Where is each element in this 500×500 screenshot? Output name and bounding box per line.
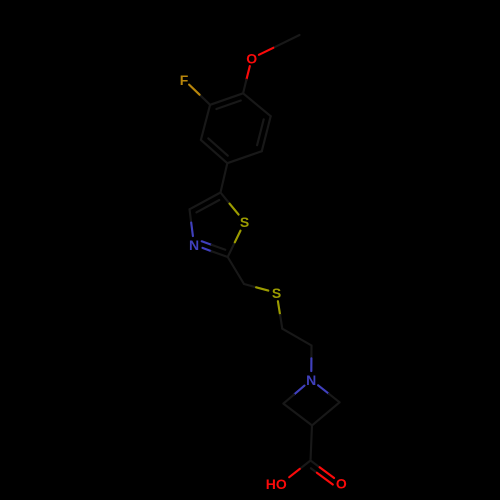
bond phenyl C1 - thiazole C5 bbox=[221, 163, 228, 192]
svg-text:S: S bbox=[240, 214, 249, 230]
thiazole bond C5-S1 bbox=[221, 193, 239, 215]
bond CH2-N (azetidine) bbox=[310, 346, 312, 372]
azetidine bond C2-C3 bbox=[283, 404, 312, 426]
bond S-CH2 bbox=[278, 301, 282, 329]
bond CH2-CH2 bbox=[282, 329, 311, 346]
benzene bond C4=C3 (double) bbox=[210, 93, 243, 109]
thiazole bond C4-N3 bbox=[190, 209, 193, 236]
bond C3-COOH carbon bbox=[311, 425, 313, 460]
benzene bond C2=C1 (double) bbox=[201, 138, 228, 163]
svg-text:N: N bbox=[189, 237, 199, 253]
svg-text:N: N bbox=[306, 372, 316, 388]
thiazole bond C5=C4 (double) bbox=[190, 193, 221, 213]
bond O-C4 (ring) bbox=[243, 66, 250, 93]
benzene bond C3-C2 bbox=[201, 105, 210, 140]
azetidine bond N1-C2 bbox=[283, 386, 304, 404]
benzene bond C6=C5 (double) bbox=[257, 116, 271, 151]
azetidine bond N1-C4 bbox=[318, 385, 340, 402]
benzene bond C5-C4 bbox=[243, 93, 271, 116]
svg-text:O: O bbox=[336, 475, 347, 491]
bond CH3-O (methoxy) bbox=[259, 35, 300, 55]
benzene bond C1-C6 bbox=[227, 151, 261, 163]
bond thiazole C2 - CH2 bbox=[228, 257, 244, 284]
svg-text:S: S bbox=[272, 285, 281, 301]
bond CH2-S (thioether) bbox=[244, 284, 268, 291]
svg-text:O: O bbox=[246, 50, 257, 66]
bond C3-F bbox=[189, 85, 210, 105]
bond C-OH (carboxyl) bbox=[289, 461, 310, 478]
bond C=O (carboxyl, double) bbox=[311, 461, 335, 485]
svg-text:F: F bbox=[180, 72, 189, 88]
svg-text:HO: HO bbox=[266, 476, 287, 492]
thiazole bond N3=C2 (double) bbox=[202, 241, 228, 257]
azetidine bond C4-C3 bbox=[312, 402, 340, 425]
thiazole bond C2-S1 bbox=[228, 231, 241, 257]
